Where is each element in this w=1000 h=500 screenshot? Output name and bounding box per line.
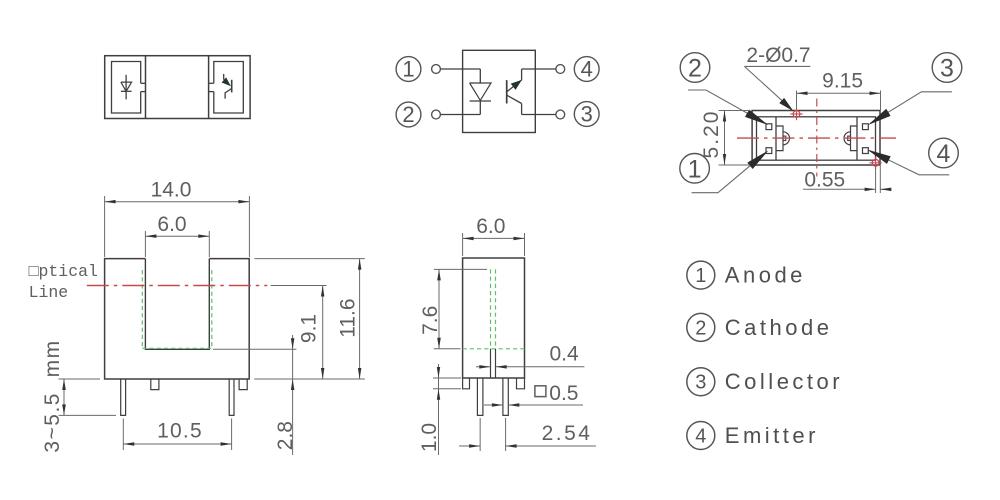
- svg-text:□ptical: □ptical: [29, 262, 98, 281]
- svg-text:Emitter: Emitter: [725, 423, 819, 448]
- svg-text:6.0: 6.0: [157, 213, 186, 236]
- svg-text:1: 1: [695, 265, 706, 287]
- svg-text:14.0: 14.0: [151, 179, 192, 202]
- svg-text:2: 2: [695, 317, 706, 339]
- svg-text:9.1: 9.1: [297, 314, 320, 343]
- svg-text:Anode: Anode: [725, 263, 806, 288]
- svg-text:0.55: 0.55: [804, 168, 845, 191]
- svg-text:4: 4: [937, 140, 951, 168]
- svg-text:1.0: 1.0: [418, 423, 441, 452]
- svg-text:2.8: 2.8: [274, 421, 297, 450]
- svg-text:4: 4: [695, 426, 706, 448]
- svg-text:5.20: 5.20: [700, 110, 723, 159]
- svg-text:0.4: 0.4: [549, 343, 579, 366]
- svg-text:9.15: 9.15: [822, 70, 863, 93]
- svg-text:2-Ø0.7: 2-Ø0.7: [746, 44, 810, 67]
- svg-text:3: 3: [695, 372, 706, 394]
- svg-text:Collector: Collector: [725, 369, 843, 394]
- svg-text:0.5: 0.5: [549, 382, 578, 405]
- svg-text:1: 1: [688, 155, 702, 183]
- svg-text:3: 3: [581, 102, 593, 127]
- svg-text:4: 4: [581, 57, 593, 82]
- svg-text:2.54: 2.54: [542, 422, 593, 445]
- svg-text:1: 1: [402, 57, 414, 82]
- svg-text:3: 3: [940, 55, 954, 83]
- svg-text:Cathode: Cathode: [725, 315, 833, 340]
- svg-text:10.5: 10.5: [157, 420, 203, 443]
- svg-text:7.6: 7.6: [419, 306, 442, 335]
- svg-text:2: 2: [688, 55, 702, 83]
- svg-text:Line: Line: [29, 283, 69, 302]
- svg-text:3~5.5 mm: 3~5.5 mm: [41, 339, 64, 452]
- svg-text:2: 2: [402, 102, 414, 127]
- svg-text:6.0: 6.0: [476, 215, 505, 238]
- svg-text:11.6: 11.6: [336, 298, 359, 337]
